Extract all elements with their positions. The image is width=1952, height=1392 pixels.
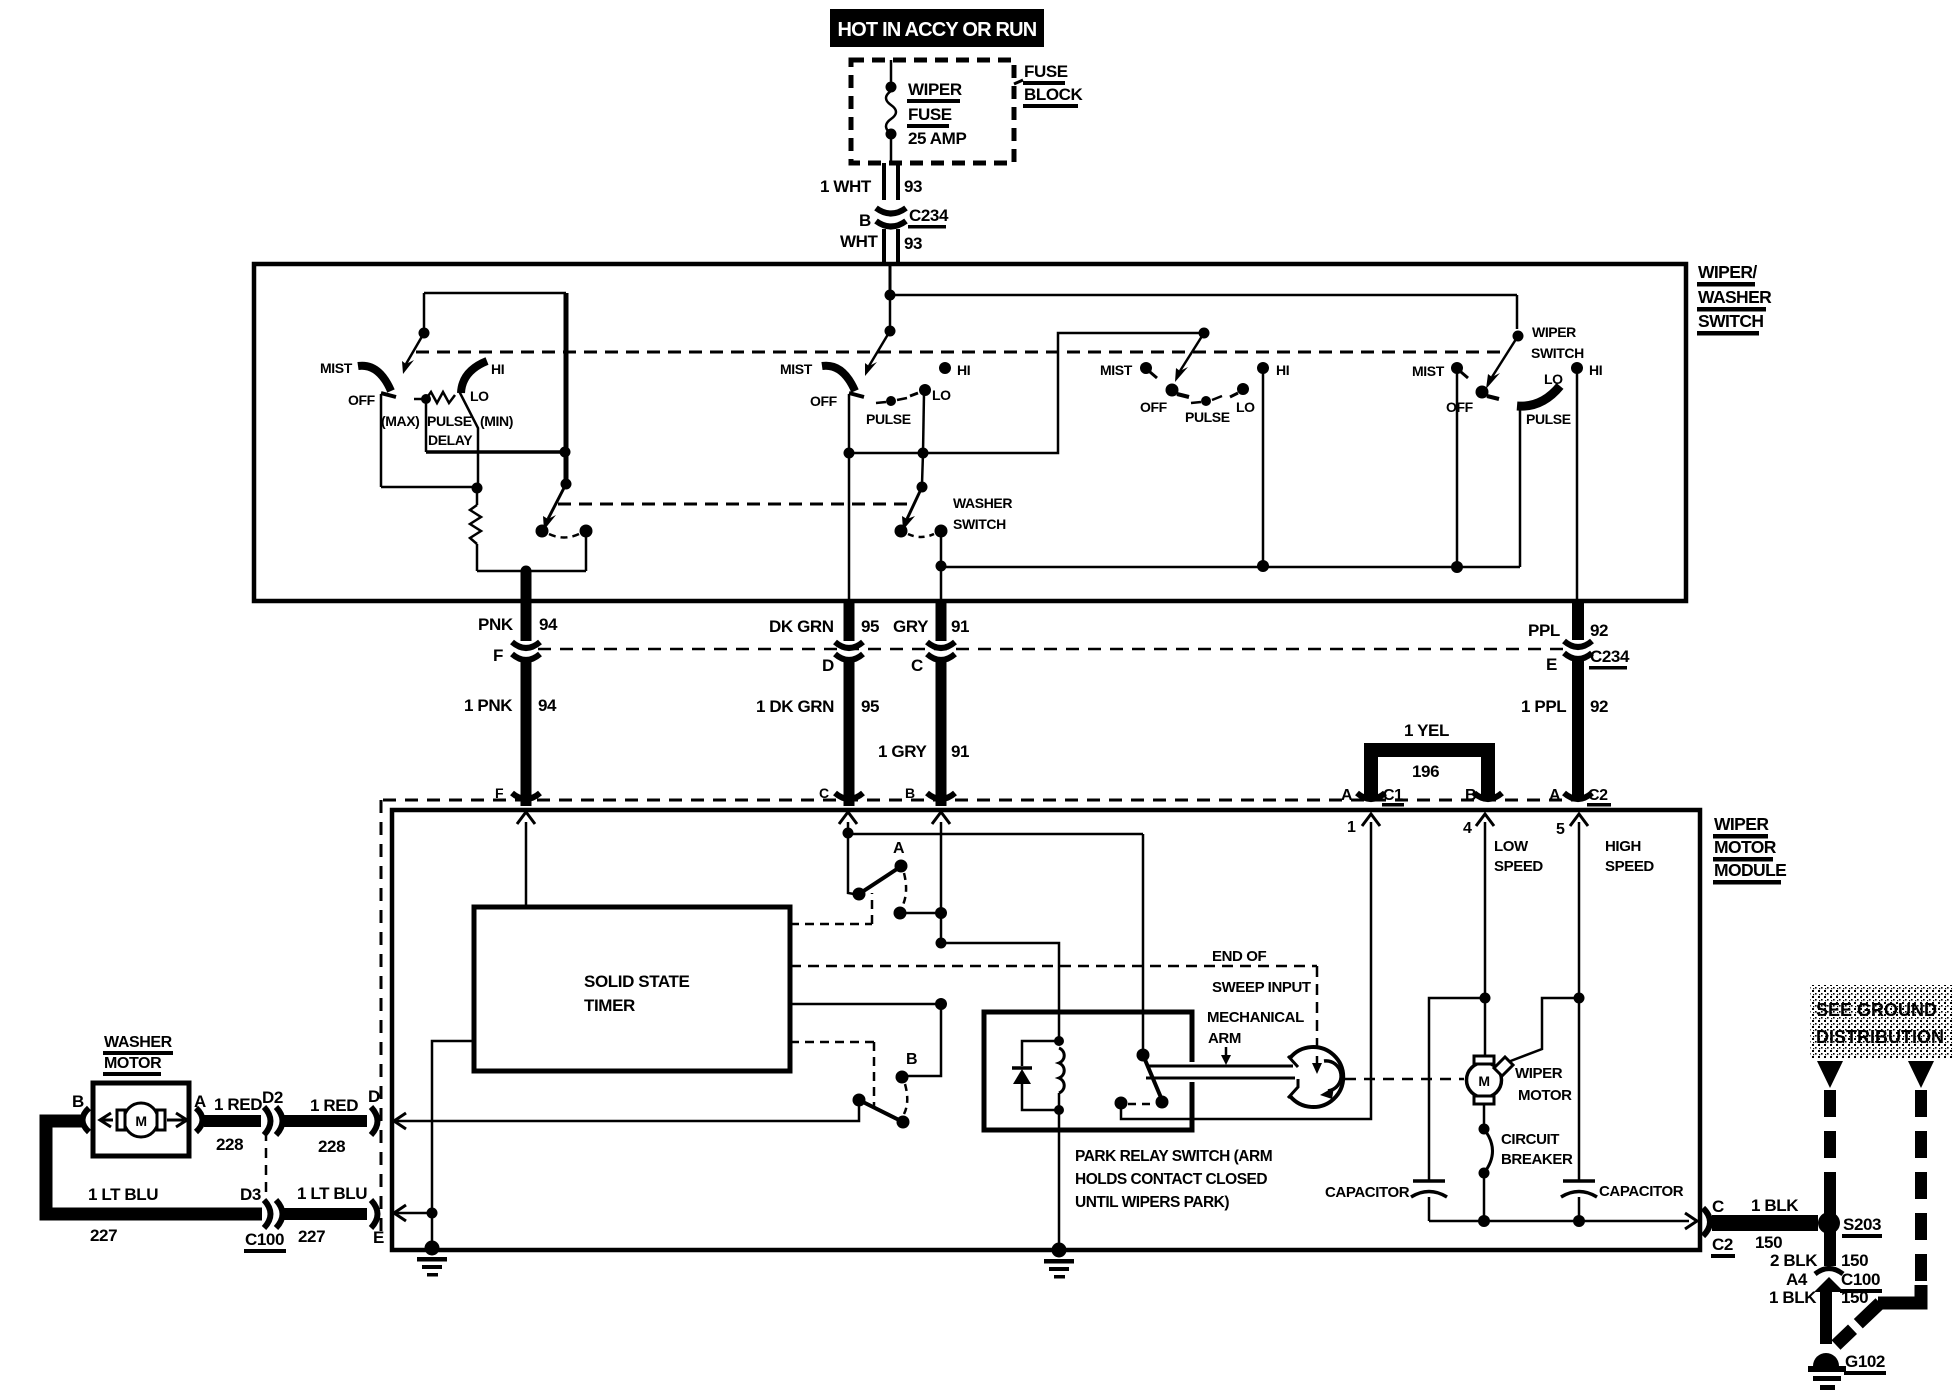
svg-text:91: 91 [951,617,969,636]
park switch arm [1143,1055,1162,1100]
svg-text:(MIN): (MIN) [480,413,513,429]
svg-text:MOTOR: MOTOR [1518,1087,1572,1104]
wire top rail main [890,294,1517,297]
wire timer left leg [432,1041,474,1212]
connector C234 dashed row [538,648,1567,651]
svg-text:MECHANICAL: MECHANICAL [1207,1009,1304,1026]
svg-text:LOW: LOW [1494,838,1529,855]
svg-text:B: B [906,1051,917,1068]
label 2 BLK 150 [1770,1251,1868,1270]
node low speed [1480,993,1491,1004]
svg-text:1 YEL: 1 YEL [1404,721,1449,740]
connector C234 pin E [1564,641,1592,659]
node S1 MAX [421,394,431,404]
connector module pin C foot [835,793,863,799]
svg-text:C100: C100 [245,1230,284,1249]
node S1 pivot [419,328,430,339]
node C branch [843,828,854,839]
svg-text:DK GRN: DK GRN [769,617,834,636]
box label WIPER/ WASHER SWITCH [1697,262,1772,336]
module entry arrow pin E [394,1205,406,1221]
label S203 [1842,1215,1882,1238]
svg-text:1: 1 [1347,819,1356,836]
label 1 PPL 92 [1521,697,1608,716]
connector C234 pin D [835,642,863,660]
svg-text:LO: LO [470,388,489,404]
wire high speed to motor flag [1508,998,1579,1062]
svg-text:G102: G102 [1845,1352,1885,1371]
svg-text:C1: C1 [1383,787,1403,804]
wire WHT 93 (hollow thick) [884,229,898,263]
label S1 MIST OFF [320,360,376,408]
module entry arrow pin D [394,1113,406,1129]
module entry arrow pin 4 [1476,814,1494,826]
svg-text:WIPER: WIPER [1532,324,1576,340]
svg-text:(MAX): (MAX) [381,413,419,429]
module entry arrow pin 1 [1362,814,1380,826]
module entry arrow pin F [517,812,535,824]
svg-text:HOLDS CONTACT CLOSED: HOLDS CONTACT CLOSED [1075,1171,1267,1188]
switch S1 HI LO arc [461,361,487,393]
label G102 [1844,1352,1886,1375]
svg-text:SWITCH: SWITCH [1698,311,1763,331]
wire ground feed right (thick dashed) [1915,1090,1927,1290]
svg-text:B: B [1465,787,1476,804]
svg-text:5: 5 [1556,821,1565,838]
svg-text:2 BLK: 2 BLK [1770,1251,1818,1270]
wire pin C to relay A [847,822,850,890]
washer linkage dashed line [558,503,912,506]
svg-text:MODULE: MODULE [1714,860,1786,880]
svg-text:OFF: OFF [810,393,838,409]
power banner HOT IN ACCY OR RUN [830,9,1044,47]
svg-text:WIPER: WIPER [1515,1065,1563,1082]
label 1 LT BLU 227 [88,1185,158,1245]
label PARK RELAY SWITCH text [1075,1148,1272,1211]
label 1 BLK 150 [1751,1196,1799,1252]
svg-text:93: 93 [904,177,922,196]
relay A moving contact [895,860,908,873]
svg-text:A4: A4 [1786,1270,1808,1289]
wire timer solid output [790,1003,941,1006]
svg-text:TIMER: TIMER [584,996,635,1015]
wire GRY 91 [936,602,947,641]
node S4 pivot [1513,331,1524,342]
wire 1 WHT 93 (hollow thick) [884,163,898,200]
svg-text:MIST: MIST [780,361,813,377]
wire pin 4 low speed [1484,822,1487,998]
module boundary dashed top [383,799,1578,802]
resistor S1 pulse (vertical) [470,488,481,571]
svg-text:WIPER: WIPER [1714,814,1769,834]
relay B moving contact [897,1116,910,1129]
wire S1 thick feed [564,293,569,484]
cam rotation arrow [1320,1061,1341,1099]
svg-text:CAPACITOR: CAPACITOR [1599,1183,1684,1200]
svg-text:WHT: WHT [840,232,879,251]
svg-text:MOTOR: MOTOR [104,1055,162,1072]
svg-text:1 LT BLU: 1 LT BLU [297,1184,367,1203]
label pins 1 4 5 [1347,819,1565,838]
wire S1 OFF leg to resistor [381,486,477,489]
park switch moving contact [1156,1096,1169,1109]
ground G-right (module) [1044,1243,1074,1279]
node E junction [427,1208,438,1219]
wire 1 LT BLU 227 second (thick) [283,1208,367,1220]
node S1 subbox corner [560,447,571,458]
svg-text:93: 93 [904,234,922,253]
connector C100 pin A4 [1814,1269,1844,1293]
connector module pin F foot [512,793,540,799]
svg-text:150: 150 [1841,1288,1868,1307]
switch S4 OFF contact [1476,386,1500,400]
relay B top contact [896,1071,909,1084]
svg-text:HI: HI [1276,362,1289,378]
wire WHT into box [889,266,892,293]
switch S3 MIST contact [1140,362,1157,378]
fuse block dashed box [851,60,1023,163]
svg-text:OFF: OFF [1446,399,1474,415]
washer motor arrow A [167,1113,187,1127]
svg-text:C: C [819,785,829,801]
module boundary dashed left [380,800,383,1235]
wire 1 DK GRN 95 [844,660,855,806]
svg-text:GRY: GRY [893,617,929,636]
switch S4 LO PULSE arc [1517,386,1560,406]
washer switch S1 arm [543,484,566,530]
svg-text:SPEED: SPEED [1605,858,1654,875]
mechanical arm pointer arrow [1221,1047,1231,1065]
label END OF SWEEP INPUT [1212,948,1311,996]
svg-text:A: A [1341,787,1353,804]
switch S3 wiper arm [1175,333,1204,382]
svg-text:94: 94 [539,615,558,634]
svg-text:FUSE: FUSE [908,105,952,124]
cam to motor dashed link [1345,1078,1464,1081]
label A C1 [1341,787,1404,807]
svg-text:E: E [1546,655,1557,674]
park switch pivot contact [1137,1049,1150,1062]
svg-text:PULSE: PULSE [427,413,472,429]
wire down to relay B [902,1004,941,1076]
node S4 MIST bus [1451,561,1463,573]
wire washer bus to S4 [941,566,1520,569]
module entry arrow pin 5 [1570,814,1588,826]
svg-text:WASHER: WASHER [1698,287,1772,307]
circuit breaker CB [1479,1124,1493,1179]
svg-text:SOLID STATE: SOLID STATE [584,972,690,991]
svg-text:DELAY: DELAY [428,432,473,448]
connector D2 [264,1107,283,1135]
node bus capacitor2 [1573,1215,1585,1227]
wire S2 washer to GRY [940,531,943,601]
connector washer B [83,1108,90,1132]
label 1 LT BLU 227 second [297,1184,367,1246]
label CIRCUIT BREAKER [1501,1131,1573,1168]
module entry arrow pin B [932,812,950,824]
switch S4 MIST contact [1451,362,1468,378]
wire PNK 94 [521,572,532,641]
switch S3 LO contact [1230,383,1249,397]
wire S203 to C100 (thick) [1824,1223,1836,1266]
svg-text:SWITCH: SWITCH [1531,345,1584,361]
svg-text:D: D [368,1087,380,1106]
svg-text:LO: LO [932,387,951,403]
node S2 pivot [885,326,896,337]
svg-text:227: 227 [298,1227,325,1246]
wire S4 HI leg (PPL source) [1576,373,1579,599]
wire park contact to pin 1 [1121,822,1371,1119]
node S2 washer pivot [917,482,928,493]
svg-text:1 DK GRN: 1 DK GRN [756,697,834,716]
mechanical linkage dashed line [416,351,1503,354]
label E C234 [1546,647,1630,674]
node timer output [935,998,947,1010]
node S1 resistor top [472,483,483,494]
svg-text:91: 91 [951,742,969,761]
wire low speed to capacitor 1 [1429,998,1485,1181]
svg-text:FUSE: FUSE [1024,62,1068,81]
wire coil to module ground [1058,1110,1061,1250]
svg-text:PULSE: PULSE [1185,409,1230,425]
node PNK junction [521,566,532,577]
relay A left contact [848,888,866,901]
switch S3 HI contact [1257,362,1269,374]
svg-text:196: 196 [1412,762,1439,781]
node relay A / B line [935,907,947,919]
park switch contact dashed gap [1128,1103,1154,1106]
switch S1 OFF contact [381,393,396,487]
svg-text:1 GRY: 1 GRY [878,742,927,761]
wire washer B loop (thick) [46,1121,262,1214]
wire pin E to ground leg [395,1212,432,1215]
wiper motor module box [392,810,1700,1250]
label HIGH SPEED [1605,838,1654,875]
wire breaker to bus [1483,1173,1486,1221]
svg-text:PNK: PNK [478,615,514,634]
connector D pin [371,1107,378,1135]
node coil branch [936,938,947,949]
svg-text:92: 92 [1590,697,1608,716]
wire 1 RED 228 (thick) [204,1115,261,1127]
washer switch S2 arm [902,487,922,530]
wire right feed diagonal (thick) [1836,1303,1880,1345]
wire high speed to capacitor 2 [1578,998,1581,1181]
svg-text:C: C [1712,1197,1724,1216]
svg-text:95: 95 [861,617,879,636]
wire S1 delay subbox left edge [425,403,428,452]
label A4 C100 [1786,1270,1882,1293]
mechanical arm bar [1146,1066,1295,1078]
connector E pin [371,1200,378,1228]
svg-text:C100: C100 [1841,1270,1880,1289]
svg-text:SPEED: SPEED [1494,858,1543,875]
switch S3 pivot [1199,328,1210,339]
capacitor C-right [1561,1181,1597,1221]
svg-text:S203: S203 [1843,1215,1881,1234]
svg-text:C2: C2 [1588,787,1608,804]
svg-text:1 RED: 1 RED [310,1096,358,1115]
svg-text:150: 150 [1755,1233,1782,1252]
label 1 DK GRN 95 [756,697,879,716]
relay B left contact [853,1094,866,1107]
relay A lower contact [894,907,907,920]
wire S4 PULSE leg [1519,404,1522,567]
washer switch S1 contacts [536,525,593,538]
svg-text:HIGH: HIGH [1605,838,1641,855]
splice S203 [1818,1212,1840,1234]
wire ground leg [431,1213,434,1248]
svg-text:PULSE: PULSE [1526,411,1571,427]
svg-text:150: 150 [1841,1251,1868,1270]
label 1 PNK 94 [464,696,557,715]
label S1 (MAX) PULSE (MIN) DELAY [381,413,513,448]
connector label B C234 [859,206,949,230]
ground feed arrowhead right [1908,1061,1934,1088]
node high speed [1574,993,1585,1004]
fuse value label WIPER FUSE 25 AMP [907,80,966,148]
svg-text:A: A [893,840,905,857]
fuse block label FUSE BLOCK [1023,62,1084,108]
svg-text:1 BLK: 1 BLK [1751,1196,1799,1215]
svg-text:SWITCH: SWITCH [953,516,1006,532]
wire pin F to timer [525,822,528,907]
switch S2 MIST arc [822,366,855,391]
wire ground bus to pin C [1429,1220,1689,1223]
label WIPER MOTOR [1515,1065,1572,1104]
svg-text:PARK RELAY SWITCH (ARM: PARK RELAY SWITCH (ARM [1075,1148,1272,1165]
ground G-left (module) [417,1241,447,1277]
connector C234 pin B [876,208,906,227]
switch S2 pivot wire [889,295,892,327]
wire S3 HI leg [1262,373,1265,566]
label A C2 [1549,787,1611,807]
module label WIPER MOTOR MODULE [1713,814,1786,885]
svg-text:E: E [373,1228,384,1247]
wire 1 PPL 92 [1572,659,1584,797]
label S1 HI LO [470,361,504,404]
park relay switch box [984,1012,1192,1130]
svg-text:UNTIL WIPERS PARK): UNTIL WIPERS PARK) [1075,1194,1229,1211]
svg-text:SEE GROUND: SEE GROUND [1816,1000,1937,1020]
label F C B pins [495,785,915,801]
connector C100 dashed link [265,1131,268,1203]
svg-text:25 AMP: 25 AMP [908,129,966,148]
label WASHER SWITCH [953,495,1012,532]
svg-text:MOTOR: MOTOR [1714,837,1777,857]
svg-text:M: M [135,1113,146,1129]
connector C1 pin B foot [1474,793,1502,799]
timer output dashed to relay A [790,893,872,924]
svg-text:CAPACITOR: CAPACITOR [1325,1184,1410,1201]
wire B line down to coil branch [940,913,943,943]
label S4 MIST OFF LO PULSE HI [1412,362,1602,427]
svg-text:END OF: END OF [1212,948,1267,965]
solid state timer box [474,907,790,1071]
svg-text:F: F [493,646,503,665]
node S1 washer pivot [561,479,572,490]
label SOLID STATE TIMER [584,972,690,1015]
svg-text:F: F [495,785,504,801]
wire 1 BLK 150 (thick) [1712,1215,1818,1231]
svg-text:4: 4 [1463,820,1472,837]
svg-text:1 LT BLU: 1 LT BLU [88,1185,158,1204]
jumper wire 1 YEL 196 [1371,750,1488,797]
svg-text:HI: HI [1589,362,1602,378]
svg-text:1 RED: 1 RED [214,1095,262,1114]
switch S2 PULSE contact [876,396,907,406]
switch S2 wiper arm [865,331,890,376]
label LOW SPEED [1494,838,1543,875]
switch S4 HI contact [1571,362,1583,374]
svg-text:1 WHT: 1 WHT [820,177,872,196]
resistor S1 delay (horizontal) [414,392,455,403]
ground G102 [1808,1353,1846,1390]
relay B arm [859,1100,903,1122]
svg-text:M: M [1478,1073,1489,1089]
svg-text:HI: HI [491,361,504,377]
relay A contact dashed gap [902,873,906,907]
svg-text:WASHER: WASHER [104,1034,173,1051]
wire S1 LO to junction [459,391,478,488]
node S2 collector LO [918,448,929,459]
module entry arrow pin C [839,812,857,824]
svg-text:A: A [1549,787,1561,804]
washer switch S2 contacts [895,525,948,538]
svg-text:228: 228 [318,1137,345,1156]
label PNK 94 [478,615,558,634]
switch S1 wiper arm [402,333,424,374]
svg-text:LO: LO [1236,399,1255,415]
connector C234 pin F [512,642,540,660]
connector washer A [196,1108,203,1132]
svg-text:WASHER: WASHER [953,495,1012,511]
svg-text:MIST: MIST [320,360,353,376]
label 1 GRY 91 [878,742,969,761]
svg-text:228: 228 [216,1135,243,1154]
wiper/washer switch box [254,264,1686,601]
relay B contact dashed gap [904,1084,907,1114]
diode CR1 [1012,1041,1059,1110]
wire S2 washer feed [922,453,923,484]
switch S2 LO contact [910,384,931,453]
switch S2 HI contact [939,362,951,374]
wire S1 delay subbox bottom [426,450,565,454]
connector C1 pin A foot [1357,793,1385,799]
connector C234 pin C [927,642,955,660]
node GRY junction [936,561,947,572]
label GRY 91 [893,617,969,636]
relay coil K1 [1054,1036,1064,1115]
module exit arrow pin C [1685,1213,1697,1229]
svg-text:C2: C2 [1712,1235,1733,1254]
label 1 BLK 150 lower [1769,1288,1868,1307]
label C100 [244,1230,286,1253]
label S2 LO HI [932,362,970,403]
fuse F WIPER FUSE 25 AMP [886,60,897,163]
timer output end of sweep dashed [790,966,1317,1066]
label DK GRN 95 [769,617,879,636]
node rail junction [885,290,896,301]
connector D3 C100 [264,1200,283,1228]
svg-text:BREAKER: BREAKER [1501,1151,1573,1168]
see ground distribution stipple box [1810,985,1952,1059]
capacitor C-left [1411,1181,1447,1221]
timer output dashed to relay B [790,1042,874,1106]
svg-text:HI: HI [957,362,970,378]
node S3 HI bus [1257,560,1269,572]
wire 1 RED 228 second (thick) [283,1115,367,1127]
